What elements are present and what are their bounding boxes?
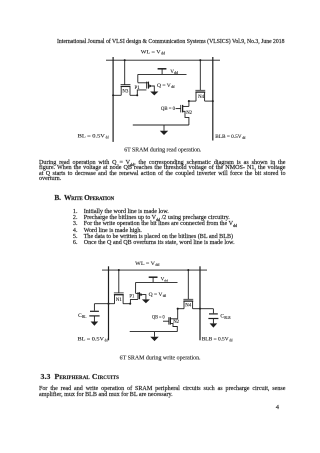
svg-text:QB = 0: QB = 0 [161,106,175,112]
svg-text:dd: dd [242,136,245,140]
svg-text:BL = 0.5V: BL = 0.5V [78,336,105,342]
svg-text:dd: dd [171,85,175,89]
svg-text:Q = V: Q = V [157,83,171,89]
svg-text:N2: N2 [173,320,179,325]
svg-text:dd: dd [155,263,159,267]
svg-text:P1: P1 [129,294,135,299]
svg-text:dd: dd [106,135,109,139]
svg-text:dd: dd [174,71,178,75]
svg-text:dd: dd [229,338,232,342]
svg-text:N3: N3 [122,89,128,94]
svg-text:QB = 0: QB = 0 [152,316,165,321]
svg-text:WL = V: WL = V [141,50,161,56]
svg-text:Q = V: Q = V [149,292,163,298]
svg-text:N2: N2 [186,111,192,116]
svg-text:WL = V: WL = V [135,261,155,267]
svg-text:6T SRAM during read operation.: 6T SRAM during read operation. [124,147,202,153]
svg-text:dd: dd [161,52,165,56]
svg-text:N4: N4 [198,95,204,100]
svg-text:P1: P1 [135,86,141,91]
svg-text:BLB = 0.5V: BLB = 0.5V [202,336,229,342]
svg-text:6T SRAM during write operation: 6T SRAM during write operation. [120,355,201,361]
svg-text:BL: BL [82,315,87,319]
svg-text:BLB: BLB [224,316,231,320]
svg-text:dd: dd [164,278,168,282]
svg-text:BL = 0.5V: BL = 0.5V [78,133,105,139]
svg-text:N4: N4 [185,303,191,308]
svg-text:BLB = 0.5V: BLB = 0.5V [215,134,241,140]
svg-text:N1: N1 [116,298,122,303]
svg-text:dd: dd [105,338,108,342]
svg-text:dd: dd [163,294,167,298]
